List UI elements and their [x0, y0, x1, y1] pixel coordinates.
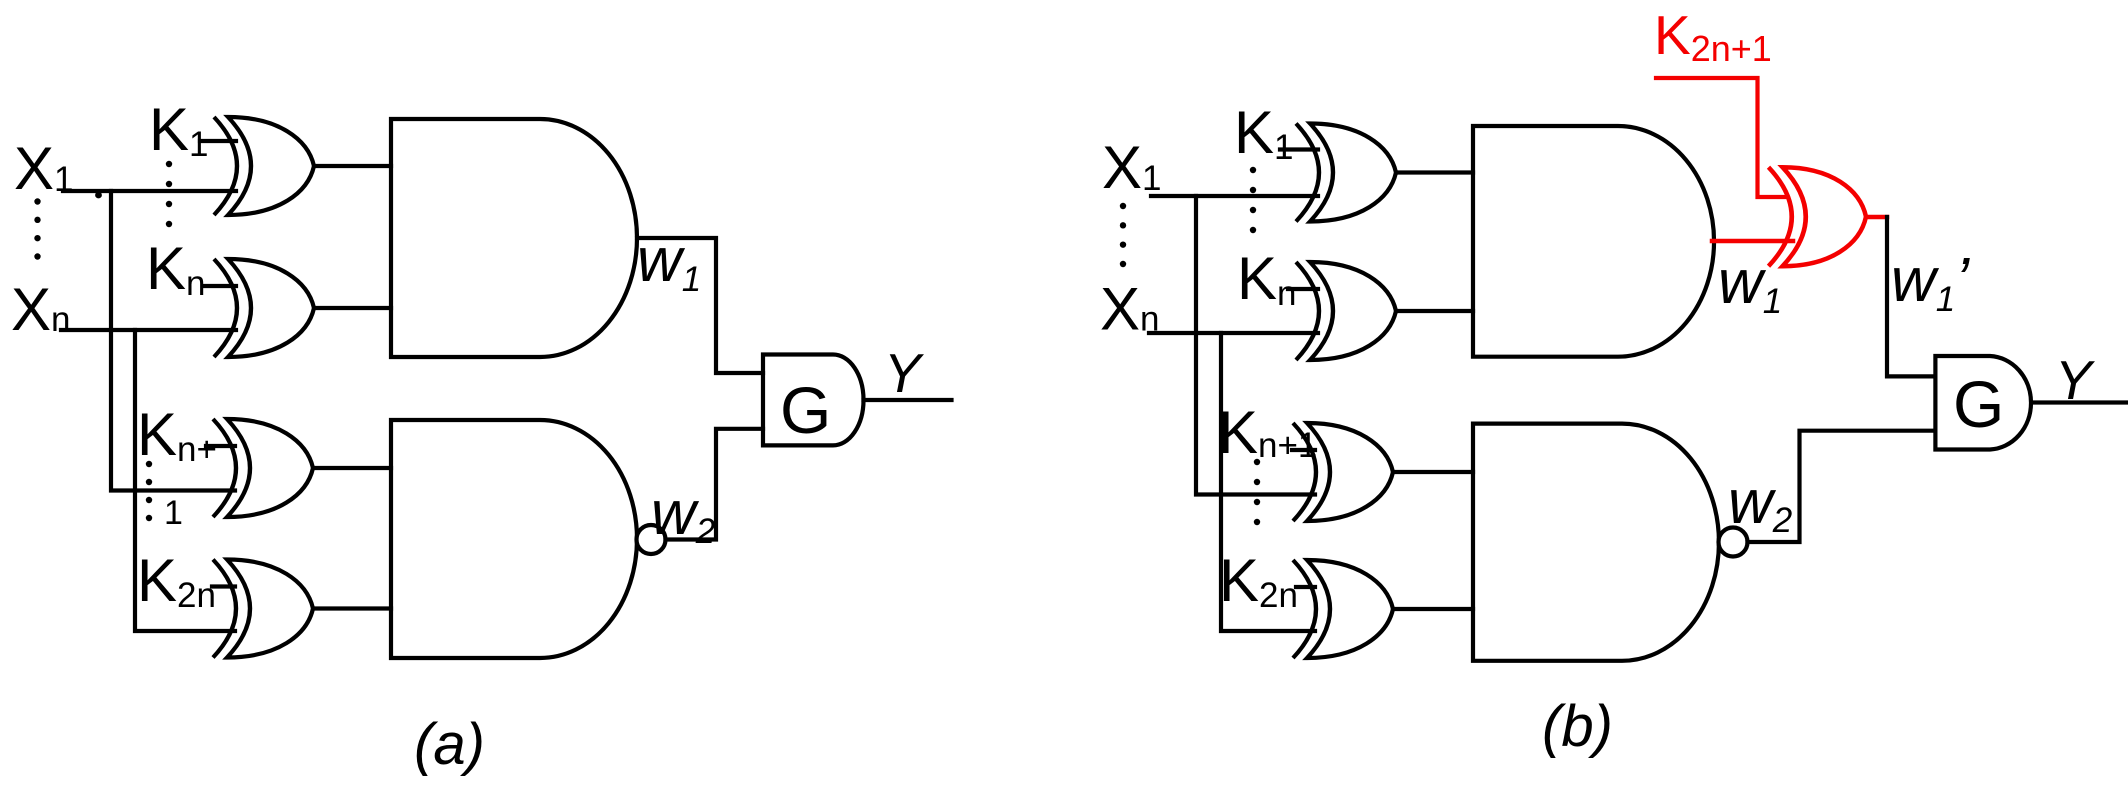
- svg-text:Kn: Kn: [146, 235, 206, 303]
- wire XOR1 out to AND (b): [1396, 170, 1473, 174]
- G gate (a): [763, 355, 864, 446]
- AND gate (b): [1473, 126, 1714, 357]
- dots between X1 and Xn: [34, 198, 40, 204]
- wire XOR2 out to AND: [314, 306, 391, 310]
- svg-text:K2n: K2n: [1219, 547, 1298, 615]
- wire X1 branch down to XOR3: [111, 191, 235, 491]
- dots between K1 and Kn: [166, 161, 172, 167]
- wire w1 to G: [637, 238, 763, 373]
- wire X1 to XOR1: [63, 189, 236, 193]
- NAND gate (b): [1473, 424, 1719, 661]
- svg-text:K1: K1: [149, 96, 209, 164]
- svg-text:(b): (b): [1542, 694, 1613, 759]
- wire XOR4 out to NAND: [313, 606, 391, 610]
- svg-text:Y: Y: [884, 342, 924, 404]
- wire w1-prime down to G (b): [1887, 217, 1935, 376]
- wire Xn to XOR2 (b): [1149, 331, 1318, 335]
- wire K1 bar (b): [1280, 147, 1318, 151]
- svg-text:K2n: K2n: [137, 547, 216, 615]
- wire X1 to XOR1 (b): [1151, 194, 1318, 198]
- AND gate (upper, w1): [391, 119, 637, 357]
- svg-text:Kn: Kn: [1237, 245, 1297, 313]
- XOR gate 1 (b): [1296, 124, 1319, 222]
- wire Y output: [864, 398, 952, 402]
- wire XOR3 out to NAND: [313, 466, 391, 470]
- wire Kn+1 bar: [206, 444, 235, 448]
- wire XOR3 out to NAND (b): [1393, 470, 1473, 474]
- dots of Kn+1 column (b): [1254, 459, 1260, 465]
- node junction dot on X1 wire: [95, 192, 102, 199]
- XOR gate 4 (Xn xor K2n): [213, 560, 236, 658]
- svg-text:K1: K1: [1234, 99, 1294, 167]
- svg-text:G: G: [780, 373, 831, 447]
- XOR gate 1 (X1 xor K1): [214, 117, 237, 215]
- NAND output bubble: [637, 525, 666, 554]
- svg-text:Kn+: Kn+: [137, 401, 217, 469]
- dots between K1 and Kn (b): [1250, 167, 1256, 173]
- wire Kn bar (b): [1288, 287, 1318, 291]
- red wire K2n+1 down to XOR5: [1656, 78, 1785, 197]
- wire Y output (b): [2033, 400, 2127, 404]
- NAND gate (lower, w2): [391, 420, 637, 658]
- figure (b): [1100, 4, 2127, 759]
- wire Kn bar: [204, 284, 236, 288]
- wire K1 bar: [200, 139, 236, 143]
- svg-text:Xn: Xn: [11, 276, 71, 343]
- wire X1 branch down to XOR3 (b): [1196, 196, 1315, 495]
- dots of Kn+1 column: [146, 461, 152, 467]
- svg-text:w2: w2: [1728, 468, 1792, 540]
- red wire XOR5 output stub: [1866, 215, 1887, 220]
- svg-text:(a): (a): [414, 712, 485, 777]
- figure (a): [11, 96, 952, 777]
- wire Xn to XOR2: [61, 328, 236, 332]
- XOR gate 2 (b): [1296, 262, 1319, 360]
- wire XOR4 out to NAND (b): [1393, 607, 1473, 611]
- XOR gate 3 (b): [1293, 423, 1316, 521]
- wire Xn branch down to XOR4 (b): [1221, 333, 1315, 631]
- svg-text:Y: Y: [2055, 349, 2095, 411]
- svg-text:w1’: w1’: [1891, 246, 1970, 319]
- dots between X1 and Xn (b): [1120, 203, 1126, 209]
- wire Xn branch down to XOR4: [135, 330, 235, 631]
- wire XOR1 out to AND: [314, 164, 391, 168]
- red XOR gate 5: [1769, 167, 1792, 266]
- XOR gate 4 (b): [1293, 560, 1316, 658]
- svg-text:K2n+1: K2n+1: [1654, 4, 1772, 69]
- svg-text:1: 1: [164, 494, 183, 532]
- wire w2 to G (b): [1748, 431, 1936, 542]
- XOR gate 3 (X1 xor Kn+1): [213, 419, 236, 517]
- svg-text:G: G: [1953, 367, 2004, 441]
- G gate (b): [1935, 356, 2031, 450]
- wire K2n bar: [212, 584, 235, 588]
- wire w2 to G: [666, 429, 764, 540]
- wire K2n bar (b): [1296, 585, 1315, 589]
- XOR gate 2 (Xn xor Kn): [214, 259, 237, 357]
- red wire AND w1 out to XOR5: [1712, 239, 1793, 244]
- svg-text:X1: X1: [1102, 134, 1162, 201]
- wire XOR2 out to AND (b): [1396, 309, 1473, 313]
- NAND output bubble (b): [1719, 528, 1748, 557]
- wire Kn+1 bar (b): [1292, 448, 1315, 452]
